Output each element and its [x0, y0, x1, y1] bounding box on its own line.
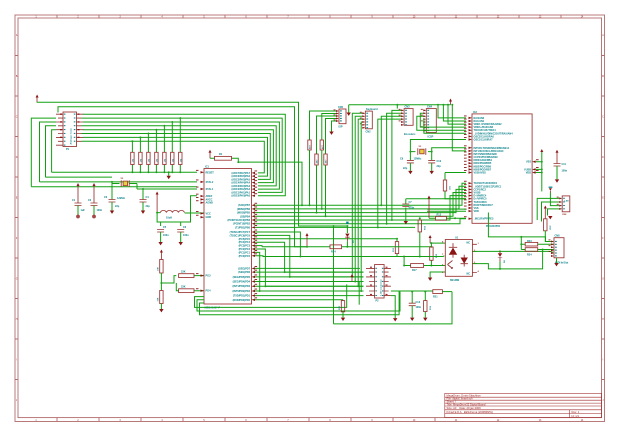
svg-text:(RXD/PD0)PD0: (RXD/PD0)PD0: [233, 299, 251, 302]
svg-text:12MHz: 12MHz: [117, 197, 126, 200]
svg-text:1M: 1M: [181, 159, 183, 162]
wire IC2 power to C11: [536, 162, 542, 173]
svg-text:R12: R12: [437, 213, 442, 216]
wire left bundle horizontals: [31, 186, 197, 188]
svg-text:22p: 22p: [437, 165, 442, 168]
svg-text:Rev: 1: Rev: 1: [572, 410, 580, 414]
power VCC at R14: [306, 233, 309, 247]
svg-text:VSS: VSS: [526, 161, 531, 164]
capacitor C4: [140, 189, 151, 214]
wire U1 pin2 to CN8: [473, 251, 553, 252]
svg-text:G: G: [16, 278, 18, 280]
connector CN5: [334, 106, 347, 129]
resistor R25: [158, 260, 164, 291]
wire divider to R10 R11: [161, 276, 204, 291]
svg-text:R24: R24: [527, 254, 532, 257]
power VCC at C11 left: [540, 149, 543, 152]
resistor R16: [418, 217, 426, 257]
svg-text:(PC0)PC0: (PC0)PC0: [239, 255, 251, 258]
wire LCD bottom nest vertical: [358, 282, 360, 305]
svg-text:IC2: IC2: [473, 111, 478, 114]
svg-text:IC1: IC1: [205, 166, 210, 169]
svg-text:AGND: AGND: [206, 202, 214, 205]
LED D6: [498, 251, 506, 263]
IC2 right power pins: [524, 159, 539, 174]
wire R1 junction to RESET rail: [237, 161, 239, 163]
svg-text:(PCINT11/OC0)PB3: (PCINT11/OC0)PB3: [227, 219, 250, 222]
svg-text:_MCLR/VPP/RE3: _MCLR/VPP/RE3: [473, 218, 494, 221]
svg-text:CN4: CN4: [427, 105, 433, 108]
power VCC at C11: [556, 150, 559, 164]
svg-text:Keyboard: Keyboard: [366, 108, 378, 111]
wire CN3 down verticals: [392, 110, 401, 220]
svg-text:OSC1/CLKI/RA7: OSC1/CLKI/RA7: [474, 139, 494, 142]
power VCC top rail right: [449, 99, 452, 105]
svg-text:100n: 100n: [562, 170, 568, 173]
wire U1 pin8: [430, 242, 445, 244]
svg-text:R23: R23: [527, 240, 532, 243]
power VCC at U1: [429, 235, 432, 243]
svg-text:VDD: VDD: [474, 210, 479, 213]
power VCC at R22: [544, 206, 547, 219]
connector CN3 encoders: [399, 106, 416, 137]
capacitor C5: [157, 226, 169, 245]
resistor R4: [147, 133, 151, 173]
wire R21 to bottom rail: [334, 292, 453, 324]
svg-text:Title: MegaDrum32 Digital Boar: Title: MegaDrum32 Digital Board: [447, 403, 486, 407]
svg-text:J: J: [602, 400, 603, 402]
capacitor C6: [177, 226, 189, 245]
IC2 left pin numbers: [464, 116, 467, 218]
LCD connector P2: [366, 265, 391, 303]
power VCC top-left: [36, 95, 39, 103]
svg-text:10K: 10K: [158, 297, 160, 301]
svg-text:1M: 1M: [173, 159, 175, 162]
svg-text:(INT0/PD2)PD2: (INT0/PD2)PD2: [232, 290, 250, 293]
IC1 ATMEGA: [204, 166, 252, 310]
svg-text:(MOSI)PB5: (MOSI)PB5: [237, 212, 251, 215]
resistor R8: [179, 117, 183, 172]
svg-text:10K: 10K: [158, 267, 160, 271]
svg-text:10uH: 10uH: [166, 217, 172, 220]
title block: [445, 393, 602, 418]
svg-text:Analogue Conn: Analogue Conn: [70, 128, 73, 145]
capacitor C9: [400, 158, 414, 175]
IC2 left pin arrows: [469, 117, 473, 220]
svg-text:ISP: ISP: [339, 126, 343, 129]
svg-text:G: G: [602, 278, 604, 280]
capacitor C7: [402, 199, 414, 225]
svg-text:R17: R17: [412, 269, 417, 272]
wire IC1 PD to LCD: [255, 268, 364, 299]
ground stub near CN8: [548, 216, 552, 219]
svg-text:PG3: PG3: [206, 275, 212, 278]
power VCC at C1: [77, 183, 80, 203]
svg-text:100n: 100n: [416, 306, 422, 309]
ground below CN5: [347, 105, 351, 116]
wire IC2 TX to midi net: [488, 213, 545, 242]
svg-text:22K: 22K: [181, 271, 186, 274]
svg-text:KiCad E.D.A. EESchema (200808: KiCad E.D.A. EESchema (20080825c): [447, 410, 494, 414]
power VCC down at CN6: [549, 187, 553, 193]
capacitor C2: [88, 199, 103, 218]
wire CN6 pins: [537, 198, 559, 220]
resistor R10: [179, 271, 194, 278]
wire LED D6 to rail: [499, 262, 501, 269]
zener D5: [345, 222, 355, 248]
svg-text:R14: R14: [331, 251, 336, 254]
svg-text:(SEG)PD6: (SEG)PD6: [238, 271, 250, 274]
wire C7 top to IC2: [406, 198, 466, 200]
resistor R7: [171, 121, 175, 172]
connector CN8 MIDI: [549, 235, 569, 265]
svg-text:(TXD/PD1)PD1: (TXD/PD1)PD1: [233, 295, 251, 298]
svg-text:1uF: 1uF: [81, 209, 86, 212]
svg-text:1M: 1M: [149, 159, 151, 162]
svg-text:VSS/AVSS: VSS/AVSS: [474, 172, 487, 175]
connector P1 Analogue: [56, 112, 84, 151]
svg-text:CN8: CN8: [555, 235, 561, 238]
wire U1 pin5 ground: [428, 272, 445, 281]
wire IC1 PB bus to IC2: [255, 183, 466, 227]
resistor R10c: [324, 154, 328, 217]
svg-text:(SEG)PD7: (SEG)PD7: [238, 267, 250, 270]
wire CN5 to pull resistors: [310, 111, 337, 140]
wire IC1 bottom nest: [195, 284, 401, 314]
connector CN6 LEDs: [557, 196, 570, 216]
resistor R9b: [315, 154, 319, 214]
svg-text:(SCK)PB7: (SCK)PB7: [238, 204, 250, 207]
capacitor C3: [104, 196, 120, 214]
IC2 PIC18F2550: [472, 111, 532, 228]
resistor R9: [308, 140, 312, 206]
svg-text:CN3: CN3: [405, 106, 411, 109]
power VCC at C2: [93, 183, 96, 203]
svg-text:(INT1/PD3)PD3: (INT1/PD3)PD3: [232, 285, 250, 288]
svg-text:100n: 100n: [163, 234, 169, 237]
crystal X2: [111, 178, 197, 200]
svg-text:C10: C10: [437, 160, 442, 163]
svg-text:R21: R21: [433, 296, 438, 299]
resistor R26: [158, 291, 164, 313]
capacitor C13: [409, 291, 422, 321]
svg-text:100n: 100n: [183, 234, 189, 237]
wire P1 right pins to wrap bundle: [82, 114, 286, 196]
svg-text:(MISO)PB6: (MISO)PB6: [237, 208, 251, 211]
resistor R2: [131, 140, 135, 172]
svg-text:(SS)PB4: (SS)PB4: [240, 215, 250, 218]
svg-text:RESET: RESET: [206, 171, 215, 174]
resistor R12: [429, 213, 466, 220]
IC1 right pin labels: [227, 172, 250, 302]
connector CN2 keyboard: [360, 108, 378, 134]
junction dots resistor rail: [131, 171, 181, 173]
wire LCD right pins: [391, 290, 433, 292]
resistor R15 usb: [443, 173, 466, 199]
IC1 right pin numbers: [255, 171, 258, 299]
op-amp U1 optocoupler 6N138: [442, 237, 480, 282]
wire IC1 PC routing: [255, 232, 443, 291]
resistor R24: [521, 248, 553, 257]
resistor R23: [521, 240, 553, 246]
svg-text:1M: 1M: [133, 159, 135, 162]
connector CN4 ICSP: [421, 105, 437, 138]
svg-text:Id: 1/1: Id: 1/1: [572, 414, 580, 418]
resistor R17: [403, 256, 445, 273]
resistor R6: [163, 125, 167, 173]
ground CN5 pin6: [329, 121, 336, 135]
resistor R1: [210, 153, 238, 162]
svg-text:22p: 22p: [403, 167, 408, 170]
svg-text:1M: 1M: [165, 159, 167, 162]
svg-text:470n: 470n: [409, 207, 415, 210]
wire U1 pin7: [420, 255, 445, 258]
svg-text:GND: GND: [206, 216, 212, 219]
wire P1 left pins down-left bundle: [31, 118, 56, 187]
capacitor C1: [72, 199, 85, 218]
svg-text:CN5: CN5: [338, 106, 344, 109]
wire U1 pin3 loop: [473, 250, 543, 269]
resistor R14: [262, 245, 432, 254]
IC2 left pin labels: [473, 117, 514, 221]
wire R1 net to IC2 column: [238, 162, 302, 205]
svg-text:(ADC0/PA0)PA0: (ADC0/PA0)PA0: [231, 195, 250, 198]
ground below CN8: [554, 258, 558, 267]
svg-text:J: J: [16, 400, 17, 402]
svg-text:CN6: CN6: [562, 214, 567, 216]
frame column ticks top: [57, 15, 561, 18]
resistor R19: [423, 291, 432, 321]
svg-text:(SEG/PD4)PD4: (SEG/PD4)PD4: [233, 281, 251, 284]
svg-text:22p: 22p: [146, 205, 151, 208]
wire AVCC rail to caps: [157, 196, 197, 226]
svg-text:22K: 22K: [181, 286, 186, 289]
svg-text:1M: 1M: [157, 159, 159, 162]
svg-text:NC: NC: [467, 273, 471, 276]
frame row ticks left: [15, 56, 18, 380]
svg-text:6N138N: 6N138N: [450, 279, 459, 282]
svg-text:1M: 1M: [141, 159, 143, 162]
resistor R13: [393, 238, 399, 256]
node CN3 top: [396, 105, 398, 109]
svg-text:CN2: CN2: [366, 130, 372, 133]
crystal X3: [409, 140, 466, 161]
power VCC at LCD: [351, 274, 354, 282]
svg-text:NC: NC: [467, 242, 471, 245]
resistor R10b: [320, 140, 324, 210]
svg-text:VCC: VCC: [206, 212, 211, 215]
svg-text:100n: 100n: [97, 209, 103, 212]
svg-text:(SEG/PD5)PD5: (SEG/PD5)PD5: [233, 276, 251, 279]
resistor R20: [339, 300, 345, 321]
power VCC at R12: [428, 196, 431, 219]
wire upper pair from P1 top: [37, 102, 347, 226]
svg-text:(PCINT10)PB2: (PCINT10)PB2: [233, 223, 250, 226]
resistor R3: [139, 136, 143, 172]
frame column ticks bottom: [57, 418, 435, 422]
svg-text:Size: A3 Date: 29 jan 2009: Size: A3 Date: 29 jan 2009: [447, 406, 482, 410]
svg-text:(T1/PB1)PB0: (T1/PB1)PB0: [235, 226, 251, 229]
IC1 right pin arrows: [252, 172, 256, 301]
power VCC lower-left chain: [160, 250, 163, 260]
resistor R22: [544, 219, 554, 242]
capacitor C11: [554, 163, 568, 183]
svg-text:XTAL1: XTAL1: [206, 188, 214, 191]
svg-text:C13: C13: [416, 301, 421, 304]
resistor R21: [433, 290, 452, 299]
resistor R18: [430, 243, 438, 266]
capacitor C10: [428, 160, 441, 174]
IC1 left pins: [196, 170, 214, 293]
svg-text:22p: 22p: [115, 205, 120, 208]
svg-text:LED: LED: [565, 200, 570, 202]
wire D5 node down: [333, 226, 335, 324]
wire top VCC rail: [349, 104, 451, 106]
wire CN4 to IC2 top pins: [420, 113, 466, 127]
svg-text:ICSP: ICSP: [428, 136, 434, 139]
svg-text:12MHz: 12MHz: [414, 158, 423, 161]
power VCC at R1: [209, 150, 212, 159]
svg-text:XTAL2: XTAL2: [206, 181, 214, 184]
frame row ticks right: [602, 56, 605, 380]
svg-text:PG4: PG4: [206, 290, 212, 293]
wire CN2 down verticals: [352, 113, 362, 277]
wire top rail drops to IC2: [438, 105, 466, 118]
svg-text:Encoders: Encoders: [404, 133, 416, 136]
svg-text:C11: C11: [562, 163, 567, 166]
inductor L1: [156, 211, 204, 220]
ground below resistor rail: [167, 172, 171, 179]
power VCC at L1: [156, 192, 159, 213]
junction dots PD verticals: [259, 256, 335, 293]
resistor R11: [179, 286, 194, 293]
svg-text:VDD: VDD: [526, 172, 531, 175]
wire IC2 aux rows: [427, 209, 466, 211]
resistor R5: [155, 129, 159, 173]
